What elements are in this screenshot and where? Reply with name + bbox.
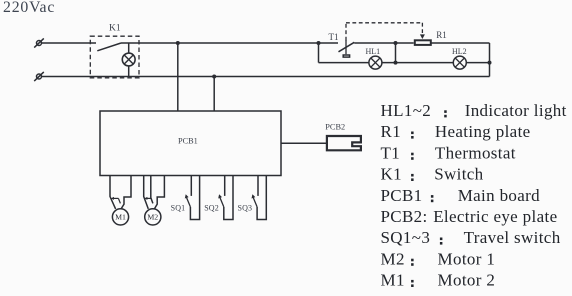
- legend text: [381, 101, 567, 290]
- svg-text:HL1: HL1: [366, 47, 381, 56]
- svg-text:Motor 2: Motor 2: [438, 271, 496, 290]
- source terminal top (circle with slash): [34, 38, 44, 47]
- thermostat T1 sensor pad: [343, 55, 349, 57]
- motor M2 wire right: [154, 176, 164, 210]
- svg-text:HL1~2: HL1~2: [381, 101, 432, 120]
- wire PCB1 to PCB2: [281, 142, 326, 144]
- wire HL branch horizontal: [319, 62, 490, 64]
- travel switch SQ3 blade: [252, 194, 258, 207]
- indicator light HL2: [453, 56, 466, 69]
- svg-text:Travel switch: Travel switch: [464, 228, 561, 247]
- svg-text:Switch: Switch: [434, 165, 483, 184]
- heating plate R1: [415, 40, 431, 45]
- travel switch SQ2 terminal: [224, 176, 226, 196]
- svg-text:Electric eye plate: Electric eye plate: [433, 207, 557, 226]
- svg-text:R1: R1: [381, 122, 402, 141]
- svg-text:220Vac: 220Vac: [3, 0, 55, 16]
- svg-text:PCB1: PCB1: [178, 137, 198, 146]
- svg-text:SQ1~3: SQ1~3: [381, 228, 431, 247]
- svg-text:K1: K1: [381, 165, 402, 184]
- motor M1 wire right: [121, 176, 131, 210]
- svg-text:K1: K1: [109, 23, 121, 33]
- svg-text:HL2: HL2: [452, 47, 467, 56]
- svg-text:SQ2: SQ2: [204, 204, 219, 213]
- main board PCB1: [100, 111, 281, 176]
- svg-text:PCB2: PCB2: [325, 123, 345, 132]
- svg-text:R1: R1: [436, 30, 447, 40]
- motor M2 wire left: [144, 176, 149, 209]
- motor M2: [145, 209, 161, 225]
- wire K1 lamp vertical: [128, 43, 130, 77]
- switch K1 indicator lamp: [122, 53, 135, 66]
- motor M1 wire left: [110, 176, 116, 209]
- wire bottom supply: [42, 76, 490, 78]
- travel switch SQ3 terminal: [257, 176, 259, 196]
- svg-text:T1: T1: [329, 32, 339, 42]
- junction top wire / HL branch left: [317, 41, 321, 45]
- svg-text:Motor 1: Motor 1: [438, 249, 496, 268]
- indicator light HL1: [369, 56, 382, 69]
- thermostat T1 contact blade: [339, 42, 355, 52]
- switch K1 dashed enclosure: [90, 36, 139, 78]
- motor M1 plug arrow: [111, 197, 121, 204]
- motor M2 wire middle: [151, 176, 153, 204]
- wire PCB1 feed L: [177, 43, 179, 111]
- wire top supply: R1 to right side: [431, 42, 490, 44]
- svg-text:Main board: Main board: [458, 186, 540, 205]
- wire right-side vertical: [489, 43, 491, 77]
- motor M2 plug arrow: [144, 197, 151, 200]
- svg-text:SQ3: SQ3: [238, 204, 253, 213]
- junction top wire / PCB1 feed L: [176, 41, 180, 45]
- switch K1 contact blade: [97, 43, 121, 51]
- travel switch SQ1 terminal: [190, 176, 192, 196]
- wire top supply: T1 blade to R1: [354, 42, 413, 44]
- mechanical link arrow into R1: [420, 34, 425, 39]
- travel switch SQ1 blade: [185, 194, 191, 207]
- svg-text:Thermostat: Thermostat: [435, 143, 516, 162]
- svg-text:SQ1: SQ1: [171, 204, 186, 213]
- svg-text:Heating plate: Heating plate: [435, 122, 531, 141]
- svg-text:M2: M2: [381, 249, 405, 268]
- wire HL1 right vertical: [395, 43, 397, 63]
- junction HL branch / HL1 right: [394, 61, 398, 65]
- wire top supply: K1 blade to T1 contact: [121, 42, 338, 44]
- junction HL branch / right vertical: [488, 61, 492, 65]
- svg-text:T1: T1: [381, 143, 401, 162]
- travel switch SQ3 return wire: [257, 176, 266, 220]
- junction top wire / HL1 right vertical: [394, 41, 398, 45]
- source terminal bottom (circle with slash): [34, 72, 44, 81]
- wire HL branch left vertical: [318, 43, 320, 63]
- travel switch SQ2 return wire: [224, 176, 233, 220]
- svg-text:M1: M1: [381, 271, 405, 290]
- junction bottom wire / PCB1 feed N: [212, 75, 216, 79]
- mechanical link T1-R1 (dashed): [346, 23, 422, 41]
- motor M1: [112, 209, 128, 225]
- wire PCB1 feed N: [213, 77, 215, 112]
- travel switch SQ2 blade: [218, 194, 224, 207]
- svg-text:PCB1: PCB1: [381, 186, 423, 205]
- wire top supply: terminal to K1 contact: [42, 42, 97, 44]
- svg-text:M2: M2: [147, 213, 158, 222]
- svg-text:Indicator light: Indicator light: [465, 101, 567, 120]
- thermostat T1 sensor stem: [345, 40, 347, 54]
- svg-text:PCB2:: PCB2:: [381, 207, 428, 226]
- svg-text:M1: M1: [115, 213, 126, 222]
- electric eye plate PCB2: [327, 136, 361, 150]
- travel switch SQ1 return wire: [190, 176, 199, 220]
